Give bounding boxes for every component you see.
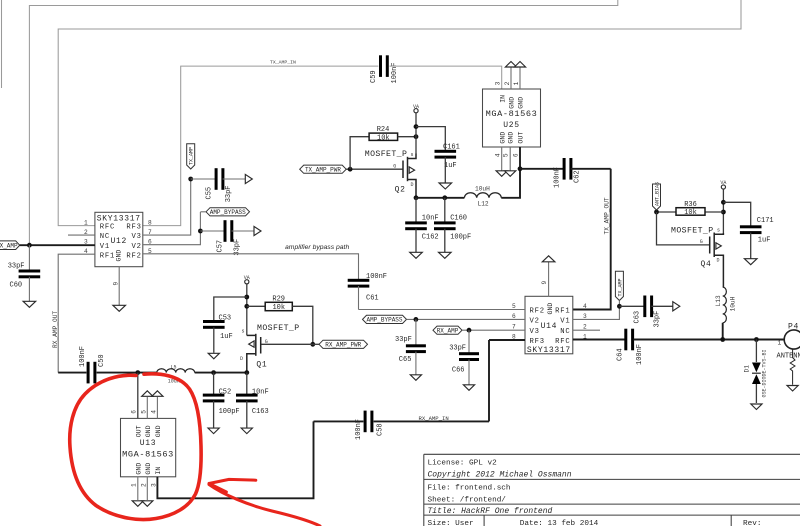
svg-text:10uH: 10uH: [475, 185, 490, 192]
svg-text:RF2: RF2: [530, 307, 545, 315]
junction U13 OUT: [135, 370, 140, 375]
svg-text:GND: GND: [507, 132, 514, 144]
junction C160 node: [442, 195, 447, 200]
power VA Q1: [244, 275, 250, 335]
capacitor C63 33pF: [619, 296, 672, 328]
junction ANT_BIAS: [654, 210, 659, 215]
svg-text:5: 5: [140, 410, 147, 414]
op-amp U13 MGA-81563 body: [121, 418, 176, 476]
svg-text:3: 3: [494, 81, 501, 85]
svg-text:6: 6: [512, 153, 519, 157]
pin 9 U12 GND: [113, 282, 120, 286]
svg-text:C64: C64: [617, 348, 625, 361]
ground U13 pin1: [132, 501, 143, 507]
wire C50 to Q1 drain: [97, 372, 247, 374]
junction VA/C171 branch: [721, 200, 726, 205]
svg-text:AMP_BYPASS: AMP_BYPASS: [210, 209, 246, 216]
title block text Copyright: [428, 471, 572, 480]
red arrow pointing at U13: [209, 479, 320, 526]
wire U25 OUT stub: [519, 147, 521, 169]
svg-text:10k: 10k: [684, 209, 697, 217]
wire VA to R29: [247, 305, 265, 307]
junction U25 OUT / C62 / L12: [518, 166, 523, 171]
svg-text:C171: C171: [757, 217, 774, 225]
node AMP_BYPASS label 2: [363, 315, 407, 323]
node amplifier bypass path comment: [285, 244, 349, 251]
wire TX_AMP_PWR to Q2 gate: [346, 168, 403, 170]
title block text License: [428, 459, 498, 467]
wire U12 GND stub: [118, 267, 120, 306]
capacitor C55 33pF: [191, 168, 245, 202]
svg-text:10k: 10k: [272, 304, 285, 312]
svg-text:License: GPL v2: License: GPL v2: [428, 459, 498, 467]
junction V3/C55: [188, 177, 193, 182]
svg-text:File: frontend.sch: File: frontend.sch: [428, 484, 511, 492]
pin 4 U25: [494, 153, 501, 157]
svg-text:9: 9: [541, 281, 548, 285]
svg-text:GND: GND: [145, 463, 152, 475]
svg-text:U12: U12: [111, 237, 128, 246]
wire U14 GND stub: [548, 262, 550, 296]
svg-text:Q2: Q2: [395, 185, 406, 194]
wire R24 to VA node: [398, 136, 416, 138]
junction VA/C53: [244, 295, 249, 300]
svg-text:s: s: [242, 329, 245, 335]
wire net TX_AMP_IN from U12 RF3 (frame line D): [143, 66, 378, 226]
wire TX_AMP_OUT to U14 RF1: [573, 169, 611, 310]
resistor R36 10k: [676, 201, 705, 217]
title block frame: [424, 454, 800, 526]
svg-text:MOSFET_P: MOSFET_P: [257, 324, 300, 333]
svg-text:V1: V1: [560, 318, 570, 326]
svg-text:Rev:: Rev:: [743, 520, 761, 526]
svg-text:GND: GND: [136, 463, 143, 475]
pin 8 U14: [512, 334, 516, 341]
svg-text:C59: C59: [370, 70, 378, 83]
capacitor C58 100nF: [355, 411, 385, 440]
svg-text:100nF: 100nF: [366, 273, 387, 281]
wire net to U12 RFC (top frame line C): [58, 0, 741, 226]
wire L13 to antenna net: [722, 323, 724, 340]
capacitor C61 100nF in bypass path: [348, 273, 387, 310]
svg-text:ANT_BIAS: ANT_BIAS: [655, 182, 661, 206]
svg-text:s: s: [717, 228, 720, 234]
ground C162: [410, 252, 423, 258]
svg-text:C161: C161: [443, 143, 460, 151]
capacitor C65 33pF: [395, 319, 426, 374]
pin 7 U14: [512, 324, 516, 331]
ground C60: [23, 301, 36, 307]
wire R29 to gate node: [292, 306, 313, 344]
svg-text:C63: C63: [634, 311, 642, 324]
capacitor C160 100pF: [434, 198, 471, 252]
svg-text:Q1: Q1: [256, 360, 267, 369]
ground U12: [113, 305, 126, 311]
pin 6 U12: [148, 239, 152, 246]
pin 5 U14: [512, 303, 516, 310]
open arrow C57: [254, 226, 261, 235]
svg-text:GSE-DIODE-TVS-BI: GSE-DIODE-TVS-BI: [762, 349, 768, 397]
pin 4 U13: [150, 410, 157, 414]
svg-text:MOSFET_P: MOSFET_P: [671, 226, 714, 235]
power VA Q2: [413, 104, 419, 154]
svg-text:RX_AMP: RX_AMP: [437, 327, 459, 334]
svg-text:Sheet: /frontend/: Sheet: /frontend/: [428, 497, 507, 505]
svg-text:V3: V3: [530, 328, 540, 336]
junction TX_AMP_PWR/R24: [348, 167, 353, 172]
svg-text:33pF: 33pF: [449, 344, 466, 352]
svg-text:RF2: RF2: [126, 252, 141, 260]
svg-text:MOSFET_P: MOSFET_P: [365, 150, 408, 159]
wire U12 NC stub: [68, 234, 95, 236]
red hand-drawn circle around U13: [70, 374, 201, 520]
junction TX_AMP/C63: [617, 304, 622, 309]
svg-text:OUT: OUT: [517, 132, 524, 144]
pin 6 U14: [512, 313, 516, 320]
svg-text:V3: V3: [131, 233, 141, 241]
svg-text:GND: GND: [517, 97, 524, 109]
wire V1 net: [20, 244, 95, 246]
svg-text:1: 1: [513, 81, 520, 85]
pin 6 U25: [512, 153, 519, 157]
junction Q2 drain: [414, 195, 419, 200]
wire net to U12 V1 (top frame line B): [29, 0, 617, 245]
ground C171: [744, 259, 757, 265]
svg-text:R29: R29: [272, 296, 285, 304]
svg-text:G: G: [393, 163, 396, 169]
svg-text:SKY13317: SKY13317: [97, 215, 141, 224]
wire U14 NC stub: [573, 329, 600, 331]
wire OUT junction to C62: [520, 168, 563, 170]
svg-text:RF1: RF1: [555, 307, 570, 315]
junction VA/R29: [244, 304, 249, 309]
svg-text:amplifier bypass path: amplifier bypass path: [285, 244, 349, 251]
pin 8 U12: [148, 219, 152, 226]
pin 6 U13: [130, 410, 137, 414]
svg-text:U25: U25: [503, 121, 520, 130]
svg-text:1uF: 1uF: [220, 333, 233, 341]
svg-text:RX_AMP_PWR: RX_AMP_PWR: [325, 342, 361, 349]
ground C160: [439, 252, 452, 258]
pin 2 U13: [140, 483, 147, 487]
wire U13 GND pin2 stub: [146, 477, 148, 500]
title block text File: [428, 484, 511, 492]
svg-text:L13: L13: [715, 295, 722, 306]
ground C66: [463, 385, 474, 391]
svg-text:OUT: OUT: [136, 425, 143, 437]
capacitor C163 10nF: [236, 373, 269, 428]
svg-text:C55: C55: [205, 187, 213, 200]
wire C58 left: [314, 420, 364, 422]
svg-text:D: D: [717, 258, 720, 264]
junction C52 node: [211, 370, 216, 375]
title block text Date: [520, 520, 599, 526]
svg-text:TX_AMP_IN: TX_AMP_IN: [270, 60, 296, 66]
svg-text:G: G: [265, 339, 268, 345]
ground arrow up U13 pin4: [152, 391, 163, 397]
svg-text:10uH: 10uH: [729, 296, 736, 311]
svg-text:GND: GND: [145, 425, 152, 437]
ground C163: [241, 428, 252, 434]
open arrow C63: [673, 302, 680, 311]
wire C58 to U14 RF3 riser: [374, 420, 489, 422]
svg-text:R24: R24: [377, 126, 390, 134]
wire U12 RF1 to RX_AMP_OUT: [58, 254, 95, 372]
svg-text:ANTENNA: ANTENNA: [777, 353, 800, 361]
pin 1 U13: [130, 483, 137, 487]
node TX_AMP_IN label: [270, 60, 296, 66]
ground C52: [208, 428, 219, 434]
inductor L5 10uH: [157, 364, 195, 384]
capacitor C66 33pF: [449, 330, 479, 384]
svg-text:D1: D1: [744, 365, 751, 373]
svg-text:100nF: 100nF: [636, 344, 644, 365]
svg-text:10nF: 10nF: [252, 388, 269, 396]
junction R29/gate: [310, 342, 315, 347]
wire VA to C53: [214, 297, 247, 322]
wire U12 V2 to AMP_BYPASS: [143, 212, 200, 245]
op-amp U12 SKY13317 switch body: [95, 212, 143, 266]
wire gate node to Q1: [261, 343, 313, 345]
wire U13 IN to C58 riser: [157, 421, 313, 498]
svg-text:U13: U13: [140, 439, 157, 448]
node TX_AMP_PWR label: [300, 165, 347, 173]
resistor R29 10k: [265, 296, 292, 313]
svg-text:VA: VA: [720, 180, 726, 186]
svg-text:1: 1: [778, 340, 782, 347]
svg-text:VA: VA: [244, 275, 250, 281]
svg-text:4: 4: [494, 153, 501, 157]
svg-text:C65: C65: [399, 356, 412, 364]
svg-text:4: 4: [583, 303, 587, 310]
pin 5 U25: [502, 153, 509, 157]
pin 3 U12: [84, 239, 88, 246]
svg-text:Q4: Q4: [701, 260, 712, 269]
svg-text:RF1: RF1: [100, 252, 115, 260]
svg-text:C163: C163: [252, 408, 269, 416]
svg-text:s: s: [411, 152, 414, 158]
wire to R24: [350, 137, 369, 170]
capacitor C64 100nF: [617, 329, 645, 365]
svg-text:2: 2: [583, 324, 587, 331]
svg-text:V1: V1: [100, 243, 110, 251]
svg-text:33pF: 33pF: [395, 336, 412, 344]
ground D1: [751, 404, 762, 410]
capacitor C62 100nF: [553, 158, 610, 188]
ground arrow down U25 pin5: [505, 171, 516, 177]
junction V2/C57: [198, 229, 203, 234]
svg-text:GND: GND: [155, 425, 162, 437]
svg-text:2: 2: [504, 81, 511, 85]
wire U14 RFC to antenna: [573, 339, 625, 341]
ground P4: [787, 386, 798, 392]
title block text Size: [428, 520, 474, 526]
capacitor C60 33pF: [8, 245, 41, 301]
svg-text:4: 4: [150, 410, 157, 414]
svg-text:GND: GND: [116, 250, 123, 262]
title block text Sheet: [428, 497, 507, 505]
svg-text:2: 2: [140, 483, 147, 487]
capacitor C59 100nF: [370, 55, 399, 83]
svg-text:C57: C57: [217, 240, 225, 253]
ground arrow up U25 pin2: [505, 62, 516, 68]
capacitor C57 33pF: [200, 220, 253, 255]
junction VA/C161: [414, 124, 419, 129]
svg-text:TX_AMP: TX_AMP: [0, 242, 18, 249]
svg-text:8: 8: [148, 219, 152, 226]
wire amplifier bypass path U12 RF2 to C61: [143, 254, 359, 280]
ground arrow up U13 pin5: [142, 391, 153, 397]
power VA Q4: [720, 180, 726, 233]
title block text Title: [428, 507, 553, 516]
wire C64 to antenna: [634, 339, 785, 341]
pin 2 U14: [583, 324, 587, 331]
capacitor C52 100pF: [203, 373, 240, 428]
svg-text:P4: P4: [788, 322, 799, 331]
svg-text:C160: C160: [450, 214, 467, 222]
wire RX_AMP to U14 V3: [462, 329, 525, 331]
wire U13 GND pin1 stub: [137, 477, 139, 500]
node TX_AMP label left edge: [0, 241, 20, 250]
capacitor C171 1uF: [740, 217, 774, 259]
pin 3 U13: [150, 483, 157, 487]
svg-text:IN: IN: [499, 95, 506, 103]
svg-text:L12: L12: [478, 200, 489, 207]
svg-text:D: D: [240, 356, 243, 362]
ground C161: [439, 183, 452, 189]
junction R24/VA: [414, 134, 419, 139]
capacitor C161 1uF: [435, 143, 460, 183]
wire U13 GND pin5 stub: [146, 397, 148, 418]
svg-text:100nF: 100nF: [355, 419, 363, 440]
pin 2 U25: [504, 81, 511, 85]
svg-text:6: 6: [130, 410, 137, 414]
resistor R24 10k: [369, 126, 398, 142]
connector P4 ANTENNA: [777, 322, 800, 385]
svg-text:100nF: 100nF: [553, 167, 561, 188]
svg-text:L5: L5: [171, 364, 177, 370]
ground U13 pin2: [142, 501, 153, 507]
svg-text:MGA-81563: MGA-81563: [122, 450, 174, 460]
svg-text:TX_AMP: TX_AMP: [617, 278, 623, 296]
pin 9 U14 GND: [541, 281, 548, 285]
svg-text:C58: C58: [376, 423, 384, 436]
junction VA/R36: [721, 210, 726, 215]
svg-text:7: 7: [512, 324, 516, 331]
ground C65: [410, 375, 421, 381]
svg-text:10k: 10k: [377, 134, 390, 142]
svg-text:RF3: RF3: [126, 224, 141, 232]
junction AMP_BYPASS/C65: [414, 317, 419, 322]
svg-text:U14: U14: [541, 322, 558, 331]
svg-text:100nF: 100nF: [79, 346, 87, 367]
svg-text:C52: C52: [219, 388, 232, 396]
node RX_AMP label: [433, 326, 462, 334]
svg-text:V2: V2: [530, 318, 540, 326]
node ANT_BIAS label: [653, 182, 661, 210]
capacitor C50 100nF: [58, 346, 106, 383]
inductor L12 10uH: [464, 185, 501, 207]
svg-text:NC: NC: [560, 328, 570, 336]
svg-text:GND: GND: [499, 132, 506, 144]
svg-text:C62: C62: [574, 170, 582, 183]
svg-text:TX_AMP_OUT: TX_AMP_OUT: [604, 197, 611, 234]
op-amp U14 SKY13317 switch body: [525, 296, 573, 355]
junction RX_AMP/C66: [467, 328, 472, 333]
pin 5 U13: [140, 410, 147, 414]
svg-text:C50: C50: [98, 354, 106, 367]
junction V1/C60: [27, 243, 32, 248]
wire L12 to U25 OUT: [501, 169, 520, 198]
svg-text:33pF: 33pF: [654, 311, 662, 328]
svg-text:C53: C53: [219, 315, 232, 323]
svg-text:G: G: [700, 239, 703, 245]
wire R36 net: [657, 211, 724, 213]
svg-text:V2: V2: [131, 243, 141, 251]
svg-text:33pF: 33pF: [8, 262, 25, 270]
wire VA to C161: [416, 127, 445, 151]
wire U25 GND pin5 stub: [509, 147, 511, 171]
svg-text:33pF: 33pF: [225, 185, 233, 202]
pin 4 U14: [583, 303, 587, 310]
pin 7 U12: [148, 229, 152, 236]
capacitor C53 1uF: [203, 315, 233, 353]
transistor Q2 MOSFET_P: [365, 150, 416, 198]
wire U25 GND pin2 stub: [510, 68, 512, 90]
diode D1 GSE-DIODE-TVS-BI: [744, 340, 768, 404]
capacitor C162 10nF below Q2: [405, 198, 438, 252]
pin 1 U25: [513, 81, 520, 85]
svg-text:10nF: 10nF: [422, 214, 439, 222]
wire ANT_BIAS to Q4 gate: [657, 212, 710, 245]
svg-text:Copyright 2012 Michael Ossmann: Copyright 2012 Michael Ossmann: [428, 471, 572, 480]
svg-text:C60: C60: [10, 282, 23, 290]
svg-text:IN: IN: [155, 467, 162, 475]
svg-text:GND: GND: [547, 303, 554, 315]
svg-text:3: 3: [150, 483, 157, 487]
node AMP_BYPASS label: [200, 208, 249, 216]
pin 1 U12: [84, 219, 88, 226]
svg-text:Date: 13 feb 2014: Date: 13 feb 2014: [520, 520, 599, 526]
svg-text:VA: VA: [413, 104, 419, 110]
svg-text:SKY13317: SKY13317: [527, 346, 571, 355]
svg-text:MGA-81563: MGA-81563: [486, 109, 538, 119]
wire U14 V1 to TX_AMP label: [573, 306, 620, 319]
wire U12 V3 to TX_AMP: [143, 179, 191, 235]
pin 5 U12: [148, 248, 152, 255]
junction D1/antenna: [754, 337, 759, 342]
wire U25 GND pin1 stub: [519, 68, 521, 90]
svg-text:33pF: 33pF: [234, 239, 242, 256]
transistor Q1 MOSFET_P mirrored: [240, 324, 300, 373]
pin 3 U25: [494, 81, 501, 85]
wire off-page stub left edge: [1, 0, 3, 88]
node TX_AMP vertical label: [187, 144, 195, 169]
svg-text:1: 1: [84, 219, 88, 226]
pin 3 U14: [583, 313, 587, 320]
ground arrow up U25 pin1: [514, 62, 525, 68]
svg-text:RFC: RFC: [100, 224, 115, 232]
wire C59 to U25 IN: [390, 66, 502, 89]
node RX_AMP_IN net label: [419, 415, 449, 422]
open arrow C55: [245, 174, 252, 183]
svg-text:1uF: 1uF: [758, 237, 771, 245]
wire Q2 drain to L12: [416, 197, 464, 199]
node TX_AMP vertical label 2: [615, 271, 623, 306]
svg-text:1: 1: [130, 483, 137, 487]
svg-text:RX_AMP_OUT: RX_AMP_OUT: [52, 311, 59, 348]
node TX_AMP_OUT net label: [604, 197, 611, 234]
